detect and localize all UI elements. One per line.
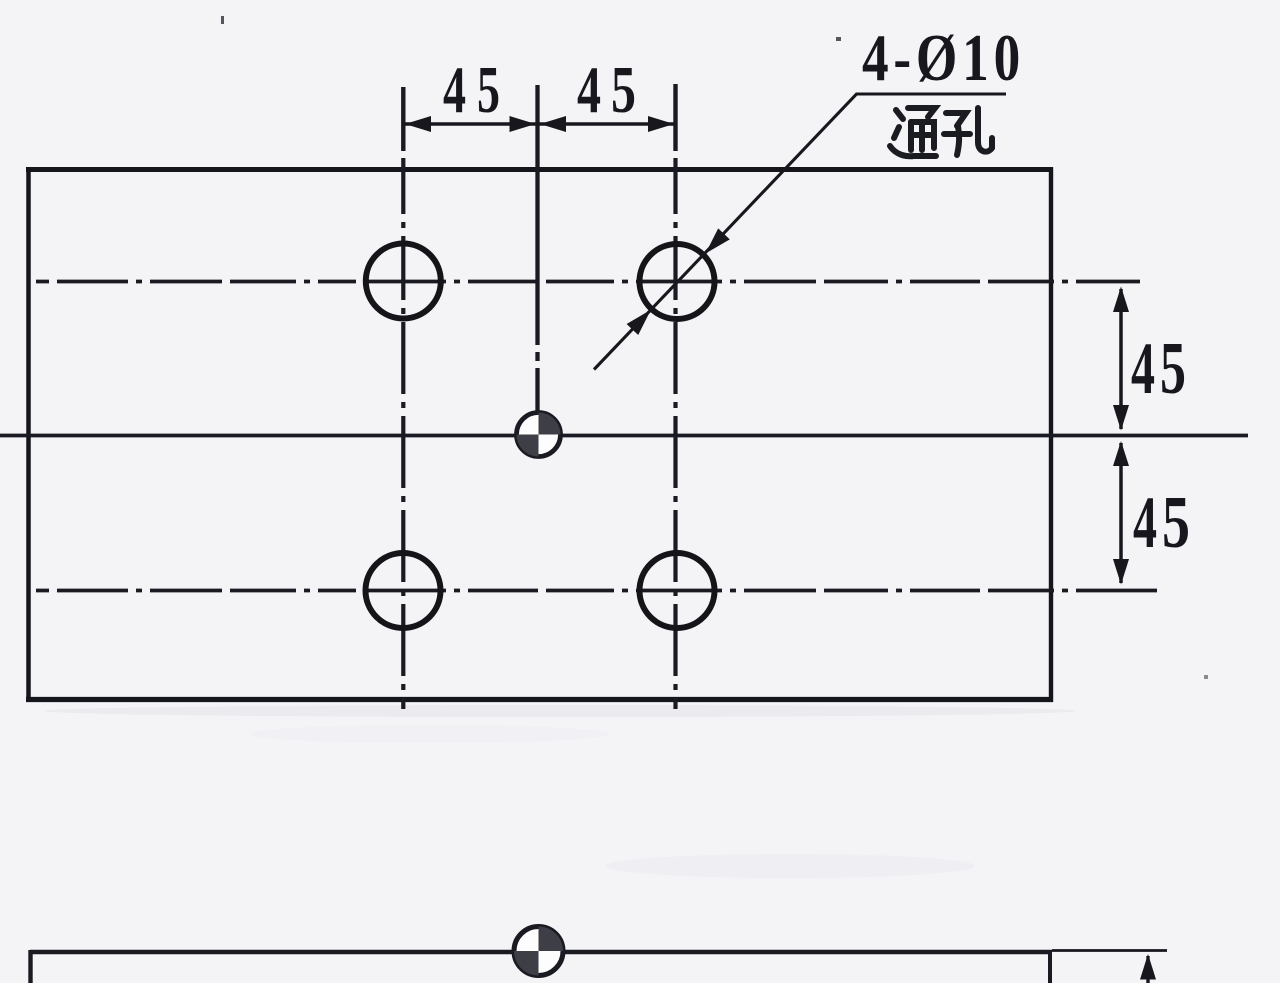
plate right edge <box>1049 167 1053 702</box>
bottom dim stem <box>1146 956 1149 983</box>
svg-text:4: 4 <box>1131 328 1155 410</box>
horizontal axis centerline through plate middle <box>0 434 1248 438</box>
vertical centerline left hole column (dash-dot) <box>401 158 405 709</box>
right dim lower arrow up <box>1113 441 1129 466</box>
bottom dim arrow up <box>1140 954 1156 980</box>
top dim arrow right <box>648 116 674 132</box>
right dim upper arrow down <box>1113 405 1129 431</box>
centroid mark middle (center of plate) <box>517 413 561 457</box>
plate bottom edge <box>26 697 1053 702</box>
hole bottom-right <box>640 553 715 628</box>
hole top-right <box>640 244 715 319</box>
bottom view right edge <box>1048 952 1052 983</box>
svg-text:5: 5 <box>1162 482 1190 564</box>
middle vertical centerline (to centroid mark) <box>535 85 539 413</box>
speck right <box>1204 675 1208 679</box>
svg-text:5: 5 <box>477 53 500 127</box>
leader line with shelf for hole callout <box>594 94 1006 370</box>
bottom view top edge <box>30 950 1052 955</box>
top dimension line <box>404 122 675 125</box>
svg-text:4: 4 <box>1133 482 1157 564</box>
right dim lower arrow down <box>1113 559 1129 585</box>
svg-text:5: 5 <box>611 53 636 127</box>
hole-row centerline top (dash-dot) <box>36 280 1140 284</box>
svg-text:4-Ø10: 4-Ø10 <box>862 21 1025 95</box>
hand-drawn hanzi 通 <box>890 108 936 156</box>
right dim line lower (45 vertical) <box>1119 443 1123 583</box>
top dim arrow mid-right <box>540 116 566 132</box>
hole-row centerline bottom (dash-dot) <box>36 589 1157 593</box>
hole top-left <box>366 244 441 319</box>
top dim arrow left <box>405 116 431 132</box>
scan ghost smudge 3 <box>605 854 975 878</box>
scan ghost smudge 2 <box>250 725 610 743</box>
leader arrow upper (points at hole edge) <box>706 228 730 253</box>
speck top <box>221 16 224 24</box>
bottom view extension line right <box>1052 949 1167 952</box>
speck near label <box>836 37 841 41</box>
right dim upper arrow up <box>1113 287 1129 313</box>
svg-text:5: 5 <box>1160 328 1186 410</box>
svg-text:4: 4 <box>577 53 601 127</box>
bottom view left edge <box>28 950 32 983</box>
vertical centerline left hole column (extension above plate) <box>401 87 405 151</box>
leader arrow lower (points at hole edge) <box>627 310 651 335</box>
svg-text:4: 4 <box>443 53 466 127</box>
hole bottom-left <box>366 553 441 628</box>
hand-drawn hanzi 孔 <box>944 108 992 155</box>
vertical centerline right hole column (extension above plate) <box>673 84 677 151</box>
top dim arrow mid-left <box>510 116 536 132</box>
centroid mark bottom view <box>514 927 563 976</box>
plate outline (top view) <box>26 167 1053 172</box>
plate left edge <box>26 167 31 702</box>
vertical centerline right hole column (dash-dot) <box>673 158 677 709</box>
right dim line upper (45 vertical) <box>1119 289 1123 429</box>
scan ghost smudge 1 <box>45 705 1075 717</box>
